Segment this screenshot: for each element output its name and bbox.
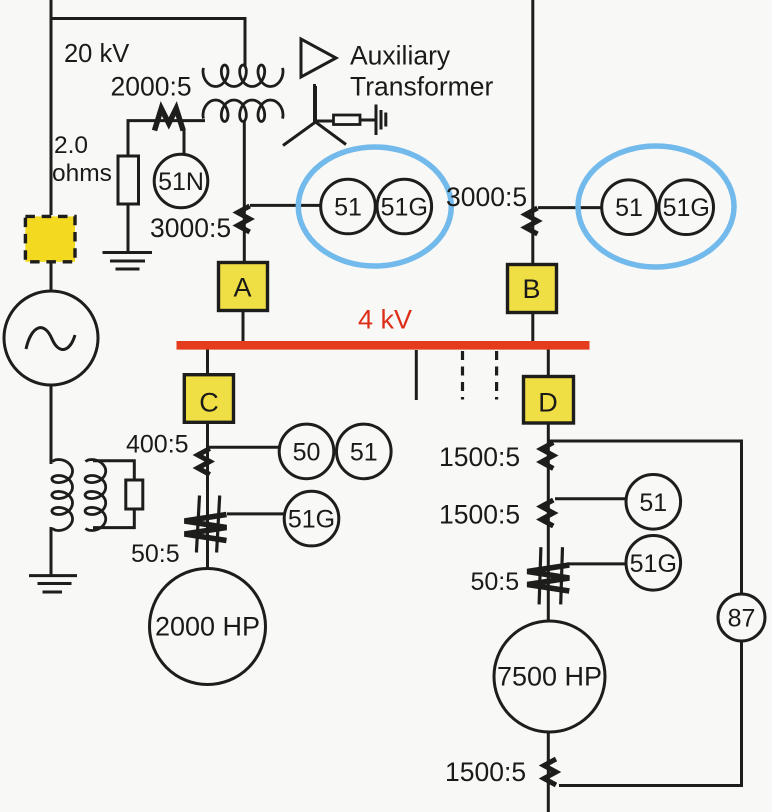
svg-text:7500 HP: 7500 HP: [497, 662, 602, 692]
svg-text:A: A: [233, 273, 251, 303]
CT 3000:5 on breaker B feed: [526, 208, 538, 234]
wire: breaker C to motor 2000 HP: [206, 424, 209, 569]
wire: B feeder vertical from top: [531, 0, 534, 263]
svg-text:2000:5: 2000:5: [111, 72, 192, 102]
wire: aux neutral resistor to ground: [360, 119, 375, 122]
aux transformer wye winding: [283, 86, 346, 146]
relay circle 51G (D branch): [626, 536, 681, 591]
wire: differential 87 loop bottom: [559, 641, 742, 786]
CT 3000:5 on breaker A feed: [238, 206, 250, 232]
svg-text:4 kV: 4 kV: [358, 305, 412, 335]
svg-text:51N: 51N: [158, 168, 204, 196]
relay circle 51 (D branch): [626, 475, 681, 530]
relay circle 87 differential: [718, 594, 765, 641]
wire: tap to relay 51G (C branch): [227, 512, 285, 515]
transformer T1 secondary winding: [203, 100, 283, 122]
svg-text:50: 50: [293, 438, 321, 466]
CT 2000:5 (M-shaped): [155, 109, 184, 131]
wire: tap to relays 50/51 (C branch): [208, 446, 280, 449]
wire: breaker B to bus: [531, 314, 534, 342]
relay circle 51G (B branch): [659, 180, 714, 235]
grounding transformer secondary winding: [85, 460, 106, 531]
svg-text:1500:5: 1500:5: [439, 500, 520, 530]
svg-text:3000:5: 3000:5: [446, 182, 527, 212]
wire: lead from 2000:5 CT to relay 51N: [183, 129, 186, 157]
breaker D: [524, 377, 574, 424]
svg-text:C: C: [199, 388, 219, 418]
wire: secondary loop bottom: [93, 509, 134, 528]
generator sine symbol: [26, 328, 75, 350]
bus 4 kV (red): [177, 341, 590, 350]
CT 50:5 zigzag on C branch: [185, 515, 227, 541]
wire: 20kV main vertical feeder: [50, 0, 53, 215]
svg-text:51: 51: [615, 194, 643, 222]
wire: aux transformer delta to wye: [313, 84, 316, 122]
svg-text:2000 HP: 2000 HP: [155, 612, 260, 642]
CT 50:5 flux summation lines (D): [539, 547, 562, 604]
resistor: aux transformer neutral: [334, 115, 361, 125]
wire: differential 87 loop top: [548, 441, 741, 594]
wire: bus to breaker D: [547, 348, 550, 376]
relay circle 51 (A branch): [321, 179, 376, 234]
CT 50:5 flux summation lines (C): [196, 496, 219, 553]
wire: breaker A to bus: [242, 312, 245, 342]
svg-text:51: 51: [350, 438, 378, 466]
wire: top horizontal branch to transformer: [51, 19, 245, 67]
blue supervision ellipse (A branch): [298, 147, 451, 266]
svg-text:3000:5: 3000:5: [150, 213, 231, 243]
CT 1500:5 at motor neutral: [544, 759, 556, 785]
ground: below 2.0 ohms resistor: [103, 253, 153, 270]
future feeder dashed stub 2: [495, 351, 498, 400]
breaker C: [184, 375, 233, 423]
svg-text:1500:5: 1500:5: [439, 442, 520, 472]
svg-text:51: 51: [334, 194, 362, 222]
svg-text:2.0: 2.0: [54, 132, 88, 159]
motor 7500 HP circle: [494, 621, 605, 732]
svg-text:51G: 51G: [630, 550, 677, 578]
relay circle 51 (C branch): [337, 424, 392, 479]
relay circle 51G (C branch): [284, 491, 339, 546]
ground: below grounding transformer: [29, 576, 77, 592]
svg-text:51G: 51G: [381, 194, 428, 222]
wire: 2000:5 CT secondary horizontal run: [128, 121, 205, 156]
svg-text:20 kV: 20 kV: [64, 40, 129, 68]
wire: tap to relays 51/51G (A branch): [250, 204, 321, 207]
aux transformer delta winding (triangle): [301, 39, 336, 77]
svg-text:Transformer: Transformer: [350, 72, 493, 102]
wire: tap to relay 51 (D branch): [555, 497, 625, 500]
svg-text:Auxiliary: Auxiliary: [350, 41, 451, 71]
ground: aux transformer (rotated): [376, 105, 386, 136]
svg-text:1500:5: 1500:5: [445, 757, 526, 787]
spare feeder stub: [415, 350, 418, 400]
svg-text:400:5: 400:5: [126, 431, 189, 459]
svg-text:51G: 51G: [663, 194, 710, 222]
grounding transformer primary winding: [52, 460, 73, 531]
relay circle 51 (B branch): [602, 180, 657, 235]
svg-text:50:5: 50:5: [471, 568, 520, 596]
wire: grounding transformer to ground: [50, 527, 53, 576]
breaker B: [508, 265, 557, 313]
svg-text:50:5: 50:5: [131, 540, 180, 568]
generator G1: [4, 291, 98, 385]
wire: motor 7500 HP to bottom CT: [547, 731, 550, 812]
generator surge box (dashed yellow): [25, 216, 75, 261]
svg-text:D: D: [538, 388, 558, 418]
svg-text:51: 51: [639, 489, 667, 517]
wire: breaker D down through CTs to motor 7500 HP: [547, 424, 550, 622]
transformer T1 primary winding: [203, 65, 283, 87]
svg-text:ohms: ohms: [52, 160, 112, 187]
future feeder dashed stub 1: [461, 351, 464, 400]
wire: transformer secondary center down to CT: [243, 121, 246, 261]
CT 50:5 zigzag on D branch: [527, 565, 569, 591]
relay circle 50 (C branch): [279, 424, 334, 479]
breaker A: [219, 263, 268, 311]
relay circle 51G (A branch): [377, 179, 432, 234]
wire: generator to grounding transformer: [50, 386, 53, 464]
wire: resistor lead to ground: [127, 204, 130, 252]
resistor: 2.0 ohms neutral resistor: [118, 156, 139, 204]
wire: bus to breaker C: [206, 348, 209, 376]
wire: generator to dashed box: [50, 262, 53, 291]
resistor: grounding transformer secondary loading resistor: [126, 480, 143, 509]
svg-text:51G: 51G: [288, 506, 335, 534]
relay circle 51N: [154, 154, 208, 208]
CT 400:5 on C branch: [198, 449, 210, 475]
wire: secondary loop top: [93, 461, 134, 480]
wire: tap to relays 51/51G (B branch): [538, 206, 602, 209]
blue supervision ellipse (B branch): [578, 146, 734, 267]
motor 2000 HP circle: [150, 569, 266, 685]
wire: tap to relay 51G (D branch): [567, 562, 627, 565]
CT 1500:5 lower on D branch: [541, 500, 553, 526]
svg-text:87: 87: [728, 605, 756, 633]
svg-text:B: B: [522, 274, 540, 304]
CT 1500:5 upper on D branch: [541, 443, 553, 469]
